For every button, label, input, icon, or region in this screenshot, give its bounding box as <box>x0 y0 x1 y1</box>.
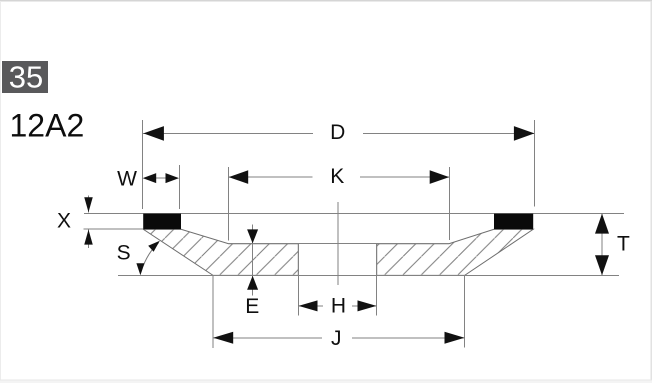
svg-text:T: T <box>617 232 630 255</box>
svg-text:35: 35 <box>9 60 43 95</box>
svg-text:E: E <box>245 295 259 318</box>
svg-text:W: W <box>117 167 137 190</box>
svg-text:D: D <box>330 121 345 144</box>
svg-text:H: H <box>331 295 346 318</box>
svg-text:X: X <box>57 210 71 233</box>
svg-text:K: K <box>330 165 344 188</box>
svg-text:J: J <box>331 327 342 350</box>
svg-text:S: S <box>117 242 131 265</box>
svg-text:12A2: 12A2 <box>10 108 85 144</box>
